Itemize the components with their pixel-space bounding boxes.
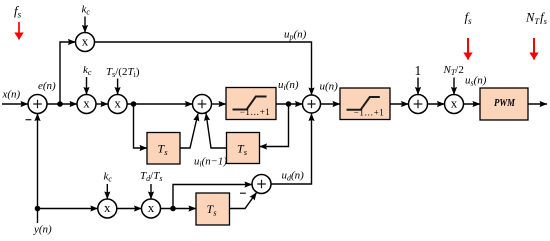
summing junction S4 <box>409 95 428 114</box>
wire M3 to PWM <box>464 103 481 105</box>
minus sign at S1 <box>26 119 32 121</box>
svg-text:x: x <box>83 96 90 111</box>
node J2 <box>131 101 137 107</box>
red arrow right fs <box>467 38 469 60</box>
wire Ts right output to S2 <box>206 113 227 148</box>
wire NT/2 arrow <box>453 78 455 95</box>
wire y(n) up to S1 <box>37 114 39 224</box>
wire Mb2 to Jb to BTs <box>161 208 197 210</box>
svg-text:Td/Ts: Td/Ts <box>140 170 162 183</box>
block Ts left <box>147 133 180 165</box>
svg-text:NTfs: NTfs <box>525 11 548 27</box>
svg-text:kc: kc <box>82 4 91 17</box>
svg-text:x: x <box>148 200 155 215</box>
multiplier M1 <box>77 95 96 114</box>
svg-text:kc: kc <box>83 64 92 77</box>
wire kc bottom arrow <box>106 184 108 199</box>
node ui(n) <box>286 101 292 107</box>
multiplier M2 <box>108 95 127 114</box>
wire S3 to B2 <box>321 103 341 105</box>
block Ts bottom <box>196 193 230 225</box>
wire Ts/(2Ti) arrow <box>117 79 119 95</box>
svg-text:1: 1 <box>415 63 422 78</box>
wire e node up to top multiplier <box>60 42 76 104</box>
wire M2 to S2 <box>127 103 192 105</box>
svg-text:PWM: PWM <box>494 97 516 109</box>
multiplier M3 <box>445 95 464 114</box>
wire 1 arrow <box>417 78 419 95</box>
wire PWM output <box>528 103 547 105</box>
wire Td/Ts arrow <box>150 184 152 199</box>
block saturation B1 <box>226 88 276 120</box>
node e(n) <box>57 101 63 107</box>
wire S2 to B1 <box>212 103 227 105</box>
wire Ts left output to S2 <box>180 114 198 149</box>
summing junction S5 ud <box>252 175 271 194</box>
summing junction S3 u(n) <box>303 95 321 113</box>
wire B1 to S3 <box>276 103 303 105</box>
wire B2 to S4 <box>390 103 409 105</box>
red arrow NTfs <box>533 38 535 60</box>
red arrow left fs <box>18 22 20 40</box>
wire S5 to S3 bottom <box>271 114 312 185</box>
svg-text:ui(n−1): ui(n−1) <box>194 156 227 169</box>
multiplier Mb1 <box>98 199 117 218</box>
minus sign at S5 <box>240 192 246 194</box>
svg-text:x(n): x(n) <box>2 89 21 101</box>
svg-text:x: x <box>104 200 111 215</box>
svg-text:−1…+1: −1…+1 <box>240 107 270 117</box>
svg-text:−1…+1: −1…+1 <box>354 107 384 117</box>
wire J2 down to Ts left block <box>134 104 148 148</box>
svg-text:fs: fs <box>465 10 473 27</box>
wire x(n) input <box>2 103 28 105</box>
svg-text:u(n): u(n) <box>320 81 339 93</box>
node y branch <box>35 206 41 212</box>
svg-text:us(n): us(n) <box>465 75 487 88</box>
wire Jb up to S5 <box>173 185 252 209</box>
svg-text:Ts/(2Ti): Ts/(2Ti) <box>106 66 140 79</box>
wire kc mid arrow <box>86 77 88 95</box>
node Jb <box>170 206 176 212</box>
wire Mb1 to Mb2 <box>117 208 142 210</box>
svg-text:x: x <box>114 96 121 111</box>
wire kc top arrow <box>84 17 86 33</box>
wire y node to Mb1 <box>38 208 98 210</box>
svg-text:y(n): y(n) <box>33 224 52 236</box>
block saturation B2 <box>340 88 390 120</box>
wire BTs output to S5 <box>230 193 257 209</box>
wire ui node down to Ts right block <box>260 104 289 147</box>
block Ts right <box>227 133 260 164</box>
svg-text:NT/2: NT/2 <box>443 64 464 77</box>
wire M1 to M2 <box>96 103 108 105</box>
svg-text:x: x <box>451 96 458 111</box>
wire S4 to M3 <box>428 103 445 105</box>
summing junction S2 <box>193 95 212 114</box>
multiplier Mb2 <box>142 199 161 218</box>
summing junction S1 <box>28 95 47 114</box>
svg-text:ui(n): ui(n) <box>278 79 299 92</box>
svg-text:kc: kc <box>104 171 113 184</box>
svg-text:up(n): up(n) <box>284 29 307 42</box>
wire up(n) from Mtop to S3 top <box>95 42 312 95</box>
svg-text:e(n): e(n) <box>38 80 56 92</box>
svg-text:fs: fs <box>14 3 22 20</box>
multiplier Mtop <box>76 33 95 52</box>
svg-text:ud(n): ud(n) <box>282 170 305 183</box>
wire S1 to M1 <box>47 103 77 105</box>
block PWM <box>480 88 528 120</box>
svg-text:x: x <box>82 34 89 49</box>
